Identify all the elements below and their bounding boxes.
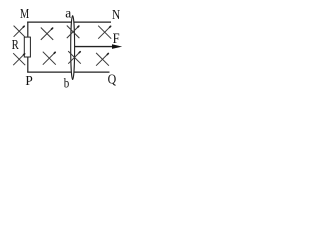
svg-text:P: P: [25, 74, 33, 89]
field cross B6: [43, 52, 56, 65]
svg-text:b: b: [64, 75, 70, 90]
svg-text:M: M: [20, 7, 30, 22]
force F arrowhead: [112, 44, 122, 49]
wire bottom rail PQ: [27, 71, 109, 73]
svg-text:R: R: [12, 37, 19, 52]
force F arrow shaft: [75, 46, 114, 48]
field cross B7: [68, 51, 81, 64]
wire top rail MN: [27, 21, 111, 23]
field cross B1: [14, 26, 25, 37]
svg-text:Q: Q: [108, 72, 117, 87]
svg-text:N: N: [112, 8, 120, 23]
field cross B5: [13, 53, 25, 65]
field cross B8: [96, 53, 109, 66]
wire left vertical lower segment: [27, 57, 29, 73]
svg-text:F: F: [113, 31, 120, 47]
resistor R1 body: [24, 37, 30, 57]
background: [0, 0, 132, 97]
field cross B2: [41, 28, 53, 40]
wire left vertical upper segment: [27, 22, 29, 39]
field cross B3: [67, 26, 80, 39]
field cross B4: [98, 26, 111, 39]
conducting rod ab: [71, 16, 75, 80]
svg-text:a: a: [65, 6, 72, 21]
